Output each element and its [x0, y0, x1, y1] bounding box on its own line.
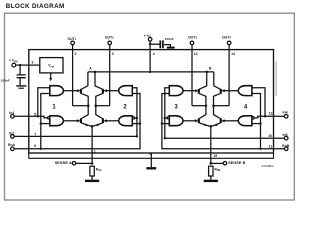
wire EnA branch gate 2 lower input	[132, 123, 140, 125]
transistor Q3 bridge A lower-left	[81, 106, 91, 127]
wire EnB net	[162, 94, 285, 149]
wire In3 branch to gate 3 inverted input	[165, 117, 167, 119]
wire In4 net	[254, 116, 284, 118]
svg-text:SENSE A: SENSE A	[55, 161, 72, 165]
ground (pin 8)	[146, 167, 156, 169]
transistor Q4 bridge A lower-right	[93, 106, 103, 127]
svg-text:BLOCK DIAGRAM: BLOCK DIAGRAM	[6, 3, 65, 10]
wire gate1 upper output to Q1 base	[63, 89, 80, 92]
svg-text:15: 15	[213, 154, 217, 158]
and-gate 2 lower with inverting input	[119, 116, 135, 126]
terminal In2 (pin 7)	[9, 132, 14, 139]
wire gate4 lower output to Q7 base	[221, 119, 238, 122]
and-gate 4 upper (driver OUT4 high side)	[238, 86, 252, 96]
wire OUT4 column	[228, 45, 230, 106]
wire EnB branch gate 4 lower input	[252, 123, 261, 125]
node junction sense B	[210, 162, 213, 165]
node junction EnA riser 1	[40, 148, 42, 150]
terminal SENSE B (pin 15)	[223, 161, 245, 165]
wire gate4 upper output to Q5 base	[221, 89, 238, 92]
resistor RSB	[209, 166, 221, 176]
wire OUT2 column	[109, 45, 111, 106]
and-gate 2 upper (driver OUT2 high side)	[119, 86, 133, 96]
and-gate 1 upper (driver OUT1 high side)	[50, 86, 64, 96]
wire In4 riser to gate 4 upper input	[252, 88, 265, 117]
terminal OUT1 (pin 2)	[67, 37, 76, 45]
svg-text:S-5486/2: S-5486/2	[262, 164, 275, 168]
svg-text:3: 3	[174, 105, 178, 111]
transistor Q8 bridge B lower-left	[199, 106, 210, 127]
svg-text:100nF: 100nF	[1, 78, 10, 82]
node junction EnB gate3 lower branch	[161, 122, 163, 124]
svg-text:SENSE B: SENSE B	[228, 161, 245, 165]
and-gate 3 lower with inverting input	[167, 116, 183, 126]
svg-text:A: A	[89, 67, 92, 71]
wire In3 net	[165, 137, 285, 139]
wire OUT1 column	[72, 45, 74, 106]
wire sense A terminal	[76, 162, 92, 164]
terminal In1 (pin 5)	[9, 111, 14, 118]
node junction EnB gate4 lower branch	[259, 122, 261, 124]
chip box double bottom line	[29, 153, 274, 158]
svg-text:100nF: 100nF	[165, 37, 174, 41]
transistor Q5 bridge B upper-right	[214, 72, 221, 106]
node junction In3 riser	[164, 137, 166, 139]
wire ground pin 8 stem	[150, 153, 152, 167]
wire OUT4 to bridge	[214, 105, 230, 107]
transistor Q2 bridge A upper-right	[95, 72, 103, 106]
wire In2 branch to gate 2 inverted input	[135, 117, 137, 119]
wire sense B column	[210, 126, 212, 163]
svg-text:6: 6	[34, 144, 36, 148]
svg-text:3: 3	[112, 52, 114, 56]
node junction In1 riser	[37, 115, 39, 117]
node OUT3 junction	[205, 104, 208, 107]
terminal OUT2 (pin 3)	[105, 36, 114, 45]
transistor Q6 bridge B upper-left	[199, 72, 207, 106]
ground (RSB)	[204, 180, 218, 182]
and-gate 1 lower with inverting input	[48, 116, 64, 126]
node junction sense A	[91, 162, 94, 165]
terminal In4 (pin 12)	[283, 111, 289, 119]
svg-text:OUT2: OUT2	[105, 36, 114, 40]
svg-text:13: 13	[194, 52, 198, 56]
wire +Vss to Vref	[16, 64, 40, 66]
wire OUT3 to bridge	[192, 105, 206, 107]
node B	[206, 67, 212, 74]
svg-text:OUT3: OUT3	[188, 36, 197, 40]
svg-text:B: B	[209, 67, 212, 71]
and-gate 4 lower with inverting input	[238, 116, 254, 126]
wire EnA net	[14, 94, 140, 149]
wire gate2 lower output to Q4 base	[103, 119, 118, 122]
svg-text:1: 1	[52, 105, 56, 111]
node junction +Vs / 100nF tap	[149, 43, 151, 45]
IC chip box outline	[29, 50, 274, 153]
wire +Vs column down to bus	[149, 41, 151, 72]
svg-text:2: 2	[123, 105, 127, 111]
node junction EnB riser 2	[259, 148, 261, 150]
wire +Vs internal bus	[88, 71, 214, 73]
wire sense B terminal	[211, 162, 223, 164]
svg-text:14: 14	[231, 52, 235, 56]
wire EnB branch gate 3 lower input	[162, 123, 169, 125]
node A	[89, 67, 96, 74]
ground (Vs bypass cap)	[167, 47, 175, 49]
wire gate2 upper output to Q2 base	[103, 89, 118, 92]
terminal EnB (pin 11)	[282, 144, 289, 151]
wire RSA to ground	[91, 176, 93, 180]
node junction bus / pin 4	[149, 71, 151, 73]
svg-text:12: 12	[269, 111, 273, 115]
node junction +Vss / 100nF tap	[19, 64, 21, 66]
and-gate 3 upper (driver OUT3 high side)	[169, 86, 183, 96]
ground (Vss bypass cap)	[16, 86, 26, 88]
transistor Q7 bridge B lower-right	[212, 106, 221, 127]
node junction In3 to gate 3 lower	[164, 117, 166, 119]
svg-text:1: 1	[94, 149, 96, 153]
wire In2 riser to gate 2 upper input	[132, 88, 137, 137]
voltage reference block Vref	[40, 58, 63, 73]
wire RSB to ground	[210, 176, 212, 180]
node junction In4 riser	[264, 115, 266, 117]
wire OUT2 to bridge	[96, 105, 110, 107]
svg-text:9: 9	[32, 61, 34, 65]
wire In2 net	[14, 135, 137, 137]
transistor Q1 bridge A upper-left	[81, 72, 88, 106]
node junction In2 riser	[136, 135, 138, 137]
svg-text:2: 2	[75, 52, 77, 56]
wire OUT1 to bridge	[73, 105, 89, 107]
svg-text:RSA: RSA	[96, 167, 102, 172]
terminal SENSE A (pin 1)	[55, 161, 76, 165]
node bridge B emitter common	[210, 125, 213, 128]
wire gate1 lower output to Q3 base	[63, 119, 80, 122]
wire In1 riser to gate 1 upper input	[38, 88, 50, 117]
svg-text:OUT4: OUT4	[222, 36, 231, 40]
scan artifact shading right of chip box	[275, 61, 277, 96]
wire EnB riser to gates 4	[252, 94, 261, 149]
capacitor 100nF (Vs bypass)	[160, 37, 174, 48]
wire gate3 lower output to Q8 base	[183, 119, 198, 122]
capacitor 100nF (Vss bypass)	[1, 65, 26, 85]
resistor RSA	[90, 166, 102, 176]
node junction In2 to gate 2 lower	[136, 117, 138, 119]
node OUT4 junction	[212, 104, 215, 107]
terminal +Vss (pin 9)	[9, 59, 18, 67]
wire In1 net	[14, 116, 47, 118]
arrow from Vref to internal circuits	[49, 73, 52, 81]
wire cap to ground	[164, 45, 171, 47]
border frame	[5, 13, 295, 200]
wire gate3 upper output to Q6 base	[183, 89, 198, 92]
svg-text:11: 11	[269, 145, 273, 149]
terminal +Vs (pin 4)	[144, 34, 152, 41]
node junction EnA gate1 lower branch	[40, 122, 42, 124]
ground (RSA)	[85, 180, 99, 182]
wire EnA riser to gates 1	[41, 94, 50, 149]
node OUT1 junction	[87, 104, 90, 107]
wire +Vs to bypass cap	[150, 43, 160, 45]
node bridge A emitter common	[91, 125, 94, 128]
node OUT2 junction	[95, 104, 98, 107]
wire EnA branch gate 1 lower input	[41, 123, 50, 125]
wire OUT3 column	[191, 45, 193, 106]
svg-text:4: 4	[244, 105, 248, 111]
terminal In3 (pin 10)	[283, 133, 289, 140]
node junction EnA gate2 lower branch	[139, 122, 141, 124]
terminal OUT4 (pin 14)	[222, 36, 231, 45]
wire sense A column	[91, 126, 93, 163]
terminal EnA (pin 6)	[8, 143, 15, 150]
svg-text:RSB: RSB	[215, 167, 221, 172]
wire In3 riser to gate 3 upper input	[165, 88, 170, 138]
terminal OUT3 (pin 13)	[188, 36, 197, 45]
svg-text:4: 4	[153, 52, 155, 56]
